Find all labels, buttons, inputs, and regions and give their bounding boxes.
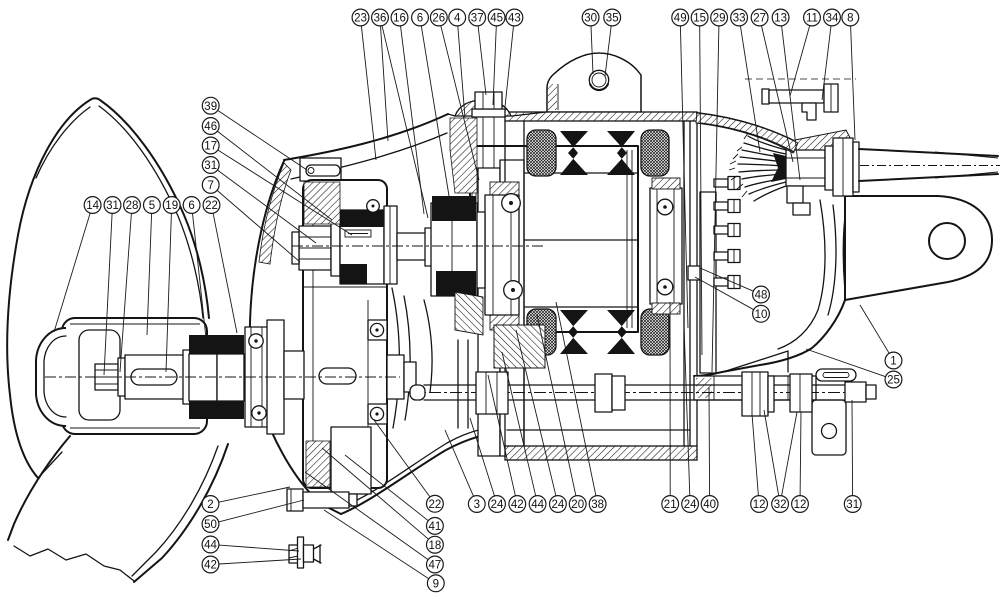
svg-text:36: 36 — [374, 13, 387, 25]
gearbox ear bracket — [300, 158, 341, 181]
lower bearing ball top — [249, 334, 263, 348]
svg-text:44: 44 — [531, 499, 544, 511]
slab bearing lower ball — [370, 407, 383, 420]
rod end — [845, 382, 876, 402]
callout balloon 6 — [412, 9, 429, 26]
fan blade upper — [7, 98, 209, 478]
svg-text:31: 31 — [106, 200, 119, 212]
callout balloon 30 — [582, 9, 599, 26]
motor bottom band — [505, 446, 697, 460]
lower bearing race — [245, 327, 268, 427]
callout balloon 24 — [682, 496, 699, 513]
bell face gasket lines — [458, 340, 468, 428]
upper spline drum — [340, 210, 384, 284]
rear housing hatched boss — [790, 130, 856, 161]
upper washer — [331, 220, 340, 276]
callout balloon 11 — [804, 9, 821, 26]
callout 26 leader line — [441, 26, 479, 180]
callout balloon 27 — [751, 9, 768, 26]
lower bracket — [812, 400, 846, 455]
bell flange hatch upper — [304, 182, 340, 224]
callout 48 leader line — [700, 268, 753, 291]
flange bolt 37 washer — [472, 109, 505, 117]
callout 24 leader line — [516, 330, 556, 496]
svg-text:28: 28 — [126, 200, 139, 212]
slab bearing upper race — [368, 320, 387, 340]
callout balloon 17 — [202, 137, 219, 154]
svg-text:8: 8 — [847, 13, 853, 25]
seal wedge hatched — [494, 325, 545, 368]
gland washer — [853, 142, 859, 192]
svg-text:30: 30 — [584, 13, 597, 25]
callout balloon 41 — [427, 518, 444, 535]
svg-text:47: 47 — [429, 560, 442, 572]
lower spline hub — [189, 354, 244, 401]
rear bearing housing hatch top — [652, 178, 680, 189]
front flange plate A — [478, 168, 500, 456]
callout 31 leader line — [104, 213, 112, 375]
callout balloon 42 — [202, 556, 219, 573]
callout balloon 22 — [427, 495, 444, 512]
hub wall inner lines — [70, 324, 200, 428]
callout 5 leader line — [147, 213, 152, 335]
svg-text:29: 29 — [713, 13, 726, 25]
callout balloon 9 — [427, 575, 444, 592]
svg-text:22: 22 — [205, 200, 218, 212]
drum top ball — [367, 200, 380, 213]
gearbox lower leg — [331, 427, 371, 494]
callout balloon 24 — [550, 496, 567, 513]
callout 46 leader line — [217, 131, 332, 220]
callout 2 leader line — [219, 487, 290, 502]
svg-text:33: 33 — [733, 13, 746, 25]
svg-text:3: 3 — [474, 499, 480, 511]
washer 31 — [118, 358, 125, 396]
callout 39 leader line — [218, 110, 307, 170]
callout balloon 7 — [202, 177, 219, 194]
svg-text:9: 9 — [433, 578, 439, 590]
callout balloon 44 — [529, 496, 546, 513]
rotor body — [470, 146, 638, 332]
rod nut right — [790, 374, 812, 412]
seal wedge lower-left hatched — [455, 292, 483, 335]
callout 18 leader line — [322, 448, 429, 539]
stator coil top-left — [527, 130, 556, 176]
top bolt 11 — [762, 84, 838, 112]
pole chevron bottom-left — [560, 310, 588, 354]
svg-text:31: 31 — [846, 499, 859, 511]
callout balloon 36 — [372, 9, 389, 26]
rod slot link — [816, 369, 856, 381]
callout balloon 21 — [662, 496, 679, 513]
callout balloon 31 — [844, 496, 861, 513]
callout 45 leader line — [493, 26, 496, 105]
callout 24 leader line — [470, 418, 495, 496]
svg-text:5: 5 — [149, 200, 155, 212]
callout balloon 12 — [751, 496, 768, 513]
front bearing race — [485, 195, 519, 315]
lower shaft centerline — [45, 376, 400, 378]
pivot pin 39 — [306, 165, 340, 176]
tie rod left tip — [410, 385, 425, 400]
callout 7 leader line — [217, 190, 300, 262]
callout balloon 43 — [506, 9, 523, 26]
bolt bracket step — [802, 103, 816, 120]
callout 12 leader line — [752, 414, 758, 496]
callout 38 leader line — [556, 302, 596, 496]
pole chevron top-right — [607, 131, 635, 175]
callout balloon 44 — [202, 536, 219, 553]
pole chevron bottom-right — [607, 310, 635, 354]
callout 12 leader line — [799, 412, 802, 496]
rear housing inner top line — [700, 123, 794, 152]
callout 17 leader line — [218, 150, 352, 235]
callout 15 leader line — [700, 26, 702, 355]
coupling washer — [477, 212, 485, 288]
gland flange — [825, 146, 833, 190]
callout 6 leader line — [421, 26, 450, 202]
callout 44 leader line — [502, 352, 536, 496]
rod mid nut — [595, 374, 625, 412]
callout balloon 33 — [731, 9, 748, 26]
callout 42 leader line — [488, 375, 515, 496]
svg-text:46: 46 — [204, 121, 217, 133]
callout balloon 47 — [427, 556, 444, 573]
rear housing outline — [694, 113, 852, 376]
callout balloon 5 — [144, 197, 161, 214]
mount dome outline — [547, 53, 641, 112]
svg-text:17: 17 — [204, 141, 217, 153]
callout balloon 46 — [202, 118, 219, 135]
callout balloon 2 — [202, 496, 219, 513]
flange bolt hole lines — [483, 117, 494, 168]
cable sheath — [859, 149, 1000, 181]
callout balloon 50 — [202, 516, 219, 533]
callout 16 leader line — [401, 26, 425, 214]
svg-text:31: 31 — [204, 160, 217, 172]
top bolt 11 dashed line — [745, 78, 856, 80]
bell section hatch at boss — [450, 118, 477, 193]
callout 14 leader line — [54, 213, 90, 332]
svg-text:14: 14 — [86, 200, 99, 212]
propeller nut 28 — [95, 364, 118, 390]
stator coil bottom-right — [641, 309, 669, 355]
svg-text:35: 35 — [606, 13, 619, 25]
svg-text:48: 48 — [755, 290, 768, 302]
stator coil top-right — [641, 130, 669, 176]
brush screw 48 — [688, 266, 700, 280]
svg-text:27: 27 — [753, 13, 766, 25]
callout 41 leader line — [345, 455, 428, 521]
svg-text:6: 6 — [188, 200, 194, 212]
callout 8 leader line — [851, 26, 855, 140]
callout balloon 3 — [468, 496, 485, 513]
motor top band — [505, 112, 697, 121]
rotor lamination left — [472, 150, 476, 328]
bottom bolt shaft — [303, 492, 357, 508]
callout balloon 31 — [104, 197, 121, 214]
callout balloon 40 — [701, 496, 718, 513]
rear bearing ball bottom — [657, 279, 673, 295]
callout 31 leader line — [217, 170, 316, 243]
bearing face plate — [267, 320, 284, 434]
front bearing housing hatch bottom — [490, 314, 519, 330]
callout balloon 8 — [842, 9, 859, 26]
callout 43 leader line — [505, 26, 514, 107]
svg-text:18: 18 — [429, 540, 442, 552]
callout 47 leader line — [305, 472, 428, 560]
svg-text:12: 12 — [794, 499, 807, 511]
front bearing ball bottom — [504, 281, 523, 300]
drain screw 42/44 — [289, 537, 321, 568]
motor right wall — [684, 121, 697, 446]
wire bundle — [729, 133, 786, 201]
callout 20 leader line — [537, 315, 576, 496]
svg-text:25: 25 — [887, 375, 900, 387]
svg-text:24: 24 — [491, 499, 504, 511]
svg-text:6: 6 — [417, 13, 423, 25]
callout 40 leader line — [708, 387, 711, 496]
callout 22 leader line — [374, 420, 430, 497]
callout balloon 45 — [488, 9, 505, 26]
callout 19 leader line — [166, 213, 171, 372]
callout 3 leader line — [445, 430, 474, 496]
svg-text:49: 49 — [674, 13, 687, 25]
callout 36 leader line — [381, 26, 389, 141]
svg-text:26: 26 — [432, 13, 445, 25]
flange bolt boss — [455, 100, 511, 116]
callout 6 leader line — [193, 213, 207, 338]
lower shaft to gearbox — [284, 351, 304, 399]
drum washer stack — [384, 206, 397, 284]
callout balloon 22 — [203, 197, 220, 214]
rear foot wedge — [726, 351, 788, 372]
rotor lamination right — [627, 150, 632, 328]
callout 23 leader line — [361, 26, 376, 160]
slab bearing lower race — [368, 404, 387, 424]
fan blade lower — [8, 436, 228, 582]
callout 9 leader line — [324, 510, 429, 579]
rear top hatch band — [696, 113, 798, 153]
callout balloon 39 — [202, 97, 219, 114]
lower spline teeth top — [189, 335, 244, 354]
callout 11 leader line — [790, 26, 810, 96]
svg-text:24: 24 — [552, 499, 565, 511]
svg-text:15: 15 — [693, 13, 706, 25]
svg-text:23: 23 — [354, 13, 367, 25]
front bearing ball top — [502, 194, 521, 213]
arm to dome top outline — [448, 112, 546, 116]
callout balloon 13 — [772, 9, 789, 26]
gland elbow — [787, 186, 810, 215]
callout 10 leader line — [695, 277, 754, 310]
svg-text:43: 43 — [508, 13, 521, 25]
spinner cap — [36, 328, 66, 426]
callout balloon 10 — [753, 305, 770, 322]
front bearing housing hatch top — [490, 182, 519, 196]
slab bearing upper ball — [370, 323, 383, 336]
rod big nut — [742, 372, 774, 416]
callout balloon 1 — [885, 352, 902, 369]
upper shaft — [397, 228, 432, 266]
bell throat curve — [424, 300, 432, 392]
callout balloon 6 — [183, 197, 200, 214]
svg-text:50: 50 — [204, 519, 217, 531]
svg-text:38: 38 — [591, 499, 604, 511]
brush end plate — [700, 192, 716, 373]
hub inner cup — [79, 330, 120, 420]
callout balloon 23 — [352, 9, 369, 26]
gearbox slab plate — [303, 180, 387, 488]
tie rod — [408, 385, 872, 400]
callout balloon 28 — [124, 197, 141, 214]
svg-text:10: 10 — [755, 309, 768, 321]
callout balloon 15 — [691, 9, 708, 26]
svg-text:24: 24 — [684, 499, 697, 511]
callout 34 leader line — [822, 26, 831, 100]
callout balloon 4 — [449, 9, 466, 26]
svg-text:12: 12 — [753, 499, 766, 511]
svg-text:42: 42 — [204, 560, 217, 572]
rear base flange — [694, 376, 816, 400]
callout 22 leader line — [213, 213, 237, 333]
svg-text:11: 11 — [806, 13, 818, 25]
callout balloon 37 — [469, 9, 486, 26]
callout balloon 12 — [792, 496, 809, 513]
svg-text:41: 41 — [429, 521, 442, 533]
cable gland — [786, 150, 825, 186]
svg-text:7: 7 — [207, 180, 213, 192]
bell flange hatch lower — [306, 441, 330, 487]
callout balloon 20 — [569, 496, 586, 513]
callout balloon 24 — [489, 496, 506, 513]
svg-text:4: 4 — [454, 13, 461, 25]
callout balloon 14 — [84, 197, 101, 214]
mounting lug — [845, 196, 992, 300]
callout balloon 34 — [824, 9, 841, 26]
terminal stud row — [714, 177, 740, 289]
svg-text:32: 32 — [774, 499, 787, 511]
gland nut 8 — [833, 138, 853, 196]
rod nut at bell — [476, 372, 508, 414]
shaft step washer — [183, 350, 190, 404]
motor left wall — [505, 121, 524, 446]
upper shaft centerline — [292, 245, 545, 247]
bell curve hatch strip — [259, 163, 291, 264]
gearbox bell housing — [250, 114, 517, 514]
callout balloon 49 — [672, 9, 689, 26]
svg-text:22: 22 — [429, 499, 442, 511]
callout 32 leader line — [764, 410, 779, 496]
callout 50 leader line — [219, 500, 304, 522]
callout balloon 31 — [202, 157, 219, 174]
bottom bolt 9/50 head — [287, 489, 303, 511]
svg-text:2: 2 — [207, 499, 213, 511]
callout 44 leader line — [219, 545, 299, 551]
upper spline coupling — [431, 196, 477, 296]
callout balloon 35 — [604, 9, 621, 26]
lower bearing ball bottom — [252, 406, 266, 420]
callout 28 leader line — [120, 213, 131, 372]
callout balloon 26 — [430, 9, 447, 26]
rear bearing housing hatch bottom — [652, 303, 680, 314]
callout balloon 38 — [589, 496, 606, 513]
callout 33 leader line — [740, 26, 760, 152]
callout 13 leader line — [782, 26, 800, 180]
callout 4 leader line — [458, 26, 465, 118]
callout 24 leader line — [684, 325, 690, 496]
svg-text:37: 37 — [471, 13, 484, 25]
callout balloon 29 — [711, 9, 728, 26]
svg-text:44: 44 — [204, 540, 217, 552]
svg-text:20: 20 — [571, 499, 584, 511]
svg-text:40: 40 — [703, 499, 716, 511]
callout 42 leader line — [219, 559, 301, 564]
slab slot hole — [319, 368, 356, 384]
svg-text:21: 21 — [664, 499, 677, 511]
mount dome — [547, 53, 641, 112]
callout 31 leader line — [851, 400, 854, 496]
callout balloon 42 — [509, 496, 526, 513]
callout 21 leader line — [669, 302, 671, 496]
motor lower shell line — [507, 429, 690, 431]
callout balloon 32 — [772, 496, 789, 513]
callout balloon 19 — [163, 197, 180, 214]
svg-text:1: 1 — [890, 356, 896, 368]
svg-text:45: 45 — [490, 13, 503, 25]
rear bearing ball top — [657, 199, 673, 215]
callout balloon 25 — [885, 371, 902, 388]
svg-text:34: 34 — [826, 13, 839, 25]
shaft slot 19 — [131, 369, 177, 385]
callout balloon 48 — [753, 286, 770, 303]
hub block — [62, 318, 207, 434]
callout 49 leader line — [680, 26, 688, 328]
callout 25 leader line — [806, 349, 886, 377]
pole chevron top-left — [560, 131, 588, 175]
front flange plate B — [500, 160, 524, 456]
callout 29 leader line — [712, 26, 719, 372]
mount hole 30 — [589, 70, 608, 90]
svg-text:39: 39 — [204, 101, 217, 113]
svg-text:13: 13 — [774, 13, 787, 25]
callout 35 leader line — [605, 26, 611, 76]
callout balloon 16 — [391, 9, 408, 26]
callout 37 leader line — [478, 26, 486, 95]
svg-text:16: 16 — [393, 13, 406, 25]
callout balloon 18 — [427, 536, 444, 553]
stator coil bottom-left — [527, 309, 556, 355]
lower output shaft stub — [387, 355, 416, 399]
motor rear bearing race — [650, 188, 682, 304]
svg-text:42: 42 — [511, 499, 524, 511]
flange bolt 37 head — [475, 92, 502, 109]
callout 27 leader line — [762, 26, 794, 162]
upper nut 17 — [292, 226, 331, 270]
lower propeller shaft — [125, 355, 185, 399]
callout 1 leader line — [860, 305, 889, 353]
lower spline teeth bottom — [189, 401, 244, 419]
callout 30 leader line — [591, 26, 593, 74]
svg-text:19: 19 — [165, 200, 178, 212]
